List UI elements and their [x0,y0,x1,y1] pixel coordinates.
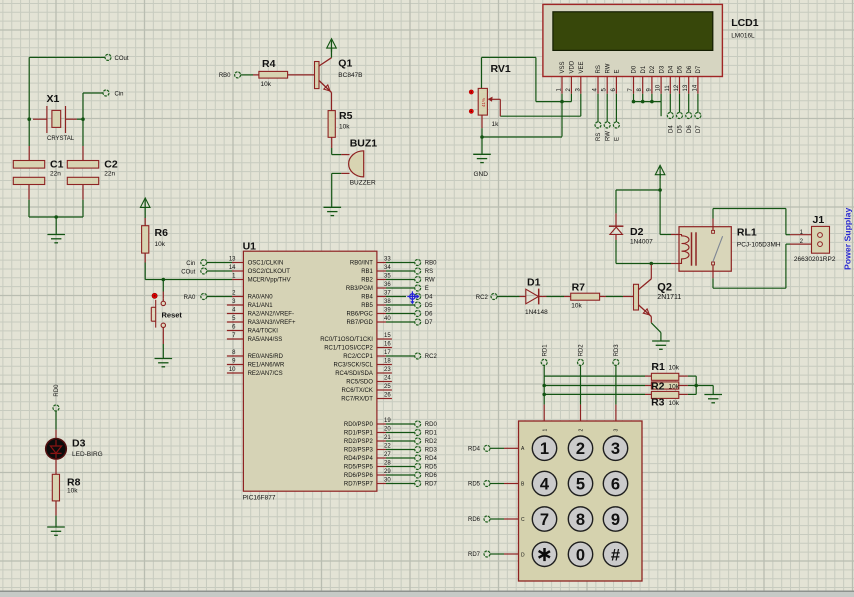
svg-text:Power Supplay: Power Supplay [842,208,852,270]
svg-text:10: 10 [229,367,236,373]
svg-text:R6: R6 [155,227,169,239]
svg-text:RD5: RD5 [425,465,438,471]
svg-text:RA0: RA0 [184,295,196,301]
svg-text:RD1/PSP1: RD1/PSP1 [344,431,374,437]
svg-text:34: 34 [384,265,391,271]
svg-text:RV1: RV1 [491,63,511,75]
svg-text:28: 28 [384,461,391,467]
svg-text:RD5/PSP5: RD5/PSP5 [344,465,374,471]
svg-text:RD6: RD6 [425,473,438,479]
svg-text:RB2: RB2 [361,278,373,284]
svg-text:RB6/PGC: RB6/PGC [347,312,374,318]
svg-text:36: 36 [384,282,391,288]
svg-text:RB0: RB0 [219,73,231,79]
svg-text:22n: 22n [104,171,115,178]
svg-text:RC7/RX/DT: RC7/RX/DT [341,397,373,403]
svg-text:LCD1: LCD1 [731,17,759,29]
svg-text:D4: D4 [425,295,433,301]
svg-text:CRYSTAL: CRYSTAL [47,136,75,142]
svg-text:38: 38 [384,299,391,305]
svg-text:RD0/PSP0: RD0/PSP0 [344,422,374,428]
svg-text:RD7/PSP7: RD7/PSP7 [344,482,374,488]
svg-text:X1: X1 [47,93,60,105]
svg-text:D3: D3 [659,65,665,73]
svg-text:10k: 10k [669,365,680,372]
svg-text:1k: 1k [492,121,500,128]
svg-text:RS: RS [596,65,602,73]
svg-text:D2: D2 [630,226,644,238]
svg-text:RW: RW [605,131,611,141]
svg-text:RD5: RD5 [468,482,481,488]
svg-text:RD6: RD6 [468,517,481,523]
svg-text:D0: D0 [632,65,638,73]
svg-text:RD3: RD3 [425,448,438,454]
svg-text:16: 16 [384,342,391,348]
svg-text:0: 0 [576,546,585,564]
svg-text:RD4: RD4 [468,447,481,453]
svg-text:10k: 10k [339,124,350,131]
svg-text:OSC1/CLKIN: OSC1/CLKIN [248,261,284,267]
svg-text:10: 10 [656,84,662,91]
svg-text:D7: D7 [425,320,433,326]
svg-text:RB0/INT: RB0/INT [350,261,373,267]
svg-text:RC2/CCP1: RC2/CCP1 [343,354,373,360]
svg-text:J1: J1 [813,214,825,226]
svg-text:RA0/AN0: RA0/AN0 [248,295,274,301]
svg-text:RD0: RD0 [54,384,60,397]
svg-text:D7: D7 [696,125,702,133]
svg-text:2: 2 [579,429,585,432]
svg-text:27: 27 [384,452,391,458]
svg-text:39: 39 [384,308,391,314]
svg-text:PCJ-105D3MH: PCJ-105D3MH [737,242,781,249]
svg-text:1N4148: 1N4148 [525,309,548,316]
svg-text:RC5/SDO: RC5/SDO [346,380,373,386]
svg-text:D1: D1 [641,65,647,73]
svg-text:E: E [615,137,621,141]
svg-text:14: 14 [692,84,698,91]
svg-text:PIC16F877: PIC16F877 [243,495,276,502]
svg-text:26: 26 [384,393,391,399]
svg-text:LED-BIRG: LED-BIRG [72,451,103,458]
svg-text:RC3/SCK/SCL: RC3/SCK/SCL [334,363,374,369]
svg-text:29: 29 [384,469,391,475]
svg-text:VEE: VEE [579,61,585,73]
svg-text:RE1/AN6/WR: RE1/AN6/WR [248,363,285,369]
svg-text:COut: COut [181,269,195,275]
svg-text:21: 21 [384,435,391,441]
svg-text:10k: 10k [155,241,166,248]
svg-text:RS: RS [425,269,433,275]
svg-text:24: 24 [384,376,391,382]
svg-text:C: C [521,517,525,523]
svg-text:15: 15 [384,333,391,339]
svg-text:RD0: RD0 [425,422,438,428]
svg-text:Q2: Q2 [657,282,672,294]
svg-text:35: 35 [384,274,391,280]
svg-text:25: 25 [384,384,391,390]
svg-text:7: 7 [540,511,549,529]
svg-text:RA5/AN4/SS: RA5/AN4/SS [248,337,283,343]
svg-text:RA3/AN3/\VREF+: RA3/AN3/\VREF+ [248,320,296,326]
svg-text:12: 12 [674,84,680,91]
svg-text:RB1: RB1 [361,269,373,275]
svg-text:D6: D6 [425,312,433,318]
svg-text:Cin: Cin [186,261,195,267]
svg-text:14: 14 [229,265,236,271]
svg-text:VDD: VDD [570,60,576,73]
svg-text:3: 3 [611,440,620,458]
svg-text:R1: R1 [651,361,665,373]
svg-text:10k: 10k [261,81,272,88]
svg-text:U1: U1 [243,241,257,253]
svg-text:RB5: RB5 [361,303,373,309]
svg-text:D6: D6 [687,65,693,73]
svg-text:RD2/PSP2: RD2/PSP2 [344,439,374,445]
svg-text:RC6/TX/CK: RC6/TX/CK [342,388,373,394]
svg-text:26630201RP2: 26630201RP2 [794,256,836,263]
svg-text:5: 5 [576,476,585,494]
svg-text:RC2: RC2 [476,295,489,301]
svg-text:20: 20 [384,427,391,433]
svg-text:RC0/T1OSO/T1CKI: RC0/T1OSO/T1CKI [320,337,373,343]
svg-text:LM016L: LM016L [731,33,755,40]
svg-text:RD7: RD7 [468,552,481,558]
svg-text:1: 1 [540,440,549,458]
svg-text:RL1: RL1 [737,227,757,239]
svg-text:41%: 41% [481,98,486,107]
svg-text:#: # [611,546,620,564]
svg-text:6: 6 [611,476,620,494]
svg-text:D5: D5 [678,125,684,133]
svg-text:1N4007: 1N4007 [630,239,653,246]
svg-text:RD1: RD1 [542,344,548,357]
svg-text:R5: R5 [339,110,353,122]
svg-text:GND: GND [474,171,489,178]
svg-text:RB7/PGD: RB7/PGD [347,320,374,326]
svg-text:RB4: RB4 [361,295,373,301]
svg-text:MCLR/Vpp/THV: MCLR/Vpp/THV [248,278,291,284]
svg-text:30: 30 [384,478,391,484]
svg-text:R4: R4 [262,58,276,70]
svg-text:RC1/T1OSI/CCP2: RC1/T1OSI/CCP2 [324,346,373,352]
svg-text:40: 40 [384,316,391,322]
svg-text:RE2/AN7/CS: RE2/AN7/CS [248,371,283,377]
svg-text:E: E [615,69,621,73]
svg-text:RC4/SDI/SDA: RC4/SDI/SDA [335,371,373,377]
svg-text:D2: D2 [650,65,656,73]
svg-text:13: 13 [683,84,689,91]
svg-text:22: 22 [384,444,391,450]
svg-text:BUZ1: BUZ1 [350,138,378,150]
svg-text:D5: D5 [425,303,433,309]
svg-text:33: 33 [384,257,391,263]
svg-text:RC2: RC2 [425,354,438,360]
svg-text:11: 11 [665,85,671,92]
svg-text:RD1: RD1 [425,431,438,437]
svg-text:3: 3 [614,429,620,432]
svg-text:D3: D3 [72,438,86,450]
svg-text:R2: R2 [651,381,665,393]
svg-text:10k: 10k [571,303,582,310]
svg-text:2N1711: 2N1711 [657,294,681,301]
svg-text:10k: 10k [67,488,78,495]
svg-text:D6: D6 [687,125,693,133]
svg-text:1: 1 [543,429,549,432]
svg-text:RD2: RD2 [579,344,585,357]
svg-text:Q1: Q1 [338,58,352,70]
svg-text:D4: D4 [669,125,675,133]
svg-text:2: 2 [576,440,585,458]
svg-text:10k: 10k [669,384,680,391]
svg-text:RD3: RD3 [614,344,620,357]
svg-text:R3: R3 [651,397,665,409]
svg-text:RW: RW [425,278,435,284]
svg-text:OSC2/CLKOUT: OSC2/CLKOUT [248,269,291,275]
svg-text:RA1/AN1: RA1/AN1 [248,303,274,309]
svg-text:RD6/PSP6: RD6/PSP6 [344,473,374,479]
svg-text:BC847B: BC847B [338,72,362,79]
svg-text:10k: 10k [669,400,680,407]
svg-text:RD4/PSP4: RD4/PSP4 [344,456,374,462]
svg-text:RD7: RD7 [425,482,438,488]
svg-text:13: 13 [229,257,236,263]
svg-text:C2: C2 [104,159,118,171]
svg-text:R7: R7 [572,282,586,294]
svg-text:8: 8 [576,511,585,529]
svg-text:Cin: Cin [115,91,124,97]
svg-text:COut: COut [115,56,129,62]
svg-text:D: D [521,552,525,558]
svg-text:D4: D4 [669,65,675,73]
svg-text:E: E [425,286,429,292]
svg-text:RE0/AN5/RD: RE0/AN5/RD [248,354,284,360]
svg-text:D5: D5 [678,65,684,73]
svg-text:RW: RW [605,63,611,73]
svg-text:RA4/T0CKI: RA4/T0CKI [248,329,279,335]
svg-text:18: 18 [384,359,391,365]
svg-text:D1: D1 [527,277,541,289]
svg-text:17: 17 [384,350,391,356]
svg-text:RB3/PGM: RB3/PGM [346,286,373,292]
svg-text:VSS: VSS [560,61,566,73]
svg-text:RD2: RD2 [425,439,438,445]
svg-text:RD4: RD4 [425,456,438,462]
svg-text:22n: 22n [50,171,61,178]
svg-text:RB0: RB0 [425,261,437,267]
svg-text:19: 19 [384,418,391,424]
svg-text:BUZZER: BUZZER [350,180,376,187]
svg-text:23: 23 [384,367,391,373]
svg-text:RD3/PSP3: RD3/PSP3 [344,448,374,454]
svg-text:4: 4 [540,476,550,494]
svg-text:C1: C1 [50,159,64,171]
svg-text:D7: D7 [696,65,702,73]
svg-text:Reset: Reset [162,311,183,320]
svg-text:37: 37 [384,291,391,297]
svg-text:RS: RS [596,133,602,141]
svg-text:RA2/AN2/\VREF-: RA2/AN2/\VREF- [248,312,294,318]
svg-text:9: 9 [611,511,620,529]
